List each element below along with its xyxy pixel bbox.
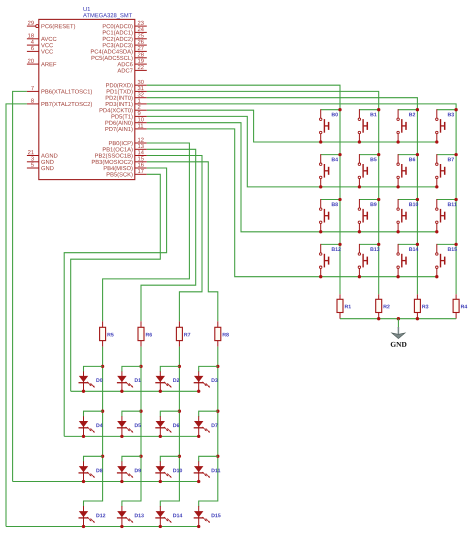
wire LED D1 anode branch [122,366,141,372]
pushbutton B0 [320,109,338,142]
junction [377,153,380,156]
pin 18 AVCC [27,33,57,41]
junction LED column 2 row 3 [139,455,142,458]
junction D1 cathode [120,390,123,393]
junction B5 bottom [358,185,361,188]
wire button B4 top to column [321,154,340,156]
junction [377,108,380,111]
wire button B6 top to column [398,154,417,156]
pin 16 PB4(MISO) [104,163,147,172]
junction [338,108,341,111]
junction D6 cathode [159,435,162,438]
junction B3 bottom [435,140,438,143]
pushbutton B6 [397,154,415,187]
junction LED column 3 row 2 [178,410,181,413]
pushbutton B12 [320,244,341,277]
junction D10 cathode [159,480,162,483]
wire LED D8 anode branch [84,456,103,462]
junction [416,243,419,246]
junction LED column 4 row 3 [216,455,219,458]
pushbutton B9 [358,199,376,232]
junction D5 cathode [120,435,123,438]
pin 17 PB5(SCK) [107,169,147,178]
LED D9 [117,461,141,481]
pin 8 PB7(XTAL2TOSC2) [27,99,92,108]
wire button B5 top to column [359,154,378,156]
pin 23 PC0(ADC0) [103,21,147,30]
junction [338,198,341,201]
junction [416,108,419,111]
wire PD7 to button row 4 [147,129,437,277]
pin 32 PD2(INT0) [106,92,147,101]
junction LED column 1 row 3 [101,455,104,458]
pushbutton B13 [358,244,379,277]
junction LED column 1 row 2 [101,410,104,413]
wire LED column 2 vertical [122,347,141,507]
pushbutton B7 [436,154,454,187]
LED D12 [79,506,106,527]
pin 9 PD5(T1) [112,111,147,120]
wire GND stub [397,319,399,328]
wire button B0 top to column [321,109,340,111]
pin 10 PD6(AIN0) [105,117,146,126]
wire PB4 to LED row 2 [64,168,166,436]
junction D11 cathode [197,480,200,483]
junction LED column 3 row 1 [178,365,181,368]
pin 25 PC2(ADC2) [103,33,147,42]
LED D1 [117,371,141,391]
junction D3 cathode [197,390,200,393]
pushbutton B2 [397,109,415,142]
junction LED column 3 row 3 [178,455,181,458]
junction [377,243,380,246]
wire PD0 to button column 1 [147,85,340,294]
pin 29 PC6(RESET) [27,21,75,30]
wire LED column 4 vertical [199,347,218,507]
pushbutton B4 [320,154,339,187]
junction [416,153,419,156]
junction B2 bottom [396,140,399,143]
pin 27 PC4(ADC4SDA) [91,46,147,55]
LED D15 [194,506,221,527]
wire button B11 top to column [437,199,456,201]
wire button B14 top to column [398,243,417,245]
junction [416,198,419,201]
pin 19 ADC6 [117,59,146,67]
pin 12 PB0(ICP) [109,138,147,147]
wire PD4 to button row 1 [147,110,437,142]
resistor R7 [176,321,190,346]
pushbutton B10 [397,199,418,232]
junction D9 cathode [120,480,123,483]
junction B4 bottom [319,185,322,188]
junction D0 cathode [82,390,85,393]
LED D11 [194,461,221,481]
junction LED column 4 row 2 [216,410,219,413]
junction B10 bottom [396,230,399,233]
IC U1 ATMEGA328_SMT [39,7,135,180]
LED D4 [79,416,103,436]
LED D8 [79,461,103,481]
pushbutton B3 [436,109,454,142]
wire LED D0 anode branch [84,366,103,372]
wire button B2 top to column [398,109,417,111]
junction [377,198,380,201]
pin 24 PC1(ADC1) [103,27,147,36]
junction [377,317,380,320]
pushbutton B8 [320,199,338,232]
junction B7 bottom [435,185,438,188]
junction LED column 2 row 1 [139,365,142,368]
wire PD5 to button row 2 [147,116,437,186]
wire button B7 top to column [437,154,456,156]
resistor R1 [337,294,351,318]
wire LED D9 anode branch [122,456,141,462]
pin 26 PC3(ADC3) [103,40,147,49]
pin 3 GND [27,156,54,164]
wire PD3 to button column 4 [147,104,456,294]
junction B8 bottom [319,230,322,233]
pushbutton B15 [436,244,457,277]
LED D13 [117,506,144,527]
wire PB1 to R6 [141,149,196,321]
pin 1 PD3(INT1) [106,99,147,108]
wire resistor commons to GND [340,318,456,320]
pin 4 VCC [27,40,53,47]
junction D12 cathode [82,525,85,528]
pin 21 AGND [27,150,58,158]
junction B1 bottom [358,140,361,143]
junction B15 bottom [435,275,438,278]
wire LED row 2 [64,435,199,437]
junction [454,198,457,201]
junction D15 cathode [197,525,200,528]
pushbutton B11 [436,199,457,232]
wire LED D3 anode branch [199,366,218,372]
wire PB7 to LED row 4 [6,104,27,527]
pushbutton B14 [397,244,418,277]
pin 6 VCC [27,46,53,54]
resistor R3 [414,294,428,318]
wire PD6 to button row 3 [147,123,437,232]
wire PB6 to LED row 3 [13,91,27,481]
pin 22 ADC7 [117,65,146,73]
junction D8 cathode [82,480,85,483]
wire LED D7 anode branch [199,411,218,417]
junction LED column 2 row 2 [139,410,142,413]
wire button B8 top to column [321,199,340,201]
junction [397,317,400,320]
LED D2 [155,371,179,391]
wire LED row 1 [71,390,199,392]
LED D7 [194,416,218,436]
wire PB2 to R7 [147,156,202,322]
junction D13 cathode [120,525,123,528]
pin 14 PB2(SSOC1B) [95,150,147,159]
pin 7 PB6(XTAL1TOSC1) [27,86,92,95]
junction [416,317,419,320]
wire LED D6 anode branch [160,411,179,417]
junction D2 cathode [159,390,162,393]
LED D10 [155,461,182,481]
junction [338,153,341,156]
junction B0 bottom [319,140,322,143]
pin 2 PD4(XCKT0) [100,105,147,114]
junction D14 cathode [159,525,162,528]
pin 30 PD0(RXD) [106,80,147,89]
resistor R8 [215,321,229,346]
junction B12 bottom [319,275,322,278]
resistor R6 [138,321,152,346]
resistor R5 [100,321,114,346]
wire LED D5 anode branch [122,411,141,417]
pin 20 AREF [27,59,56,66]
junction [454,243,457,246]
junction [338,243,341,246]
LED D0 [79,371,103,391]
pin 5 GND [27,163,54,170]
wire button B10 top to column [398,199,417,201]
wire LED D4 anode branch [84,411,103,417]
pushbutton B5 [358,154,376,187]
junction B9 bottom [358,230,361,233]
wire LED column 1 vertical [84,347,103,507]
wire PD1 to button column 2 [147,91,379,294]
junction LED column 1 row 1 [101,365,104,368]
junction D7 cathode [197,435,200,438]
pin 11 PD7(AIN1) [105,124,146,133]
pin 28 PC5(ADC5SCL) [92,52,147,61]
pin 31 PD1(TXD) [107,86,147,95]
wire PB5 to LED row 1 [71,174,161,391]
pushbutton B1 [358,109,376,142]
wire button B13 top to column [359,243,378,245]
junction D4 cathode [82,435,85,438]
wire button B9 top to column [359,199,378,201]
junction LED column 4 row 1 [216,365,219,368]
junction [454,153,457,156]
wire PB3 to R8 [147,162,218,321]
pin 13 PB1(OC1A) [103,144,147,153]
LED D6 [155,416,179,436]
junction [454,108,457,111]
wire LED D2 anode branch [160,366,179,372]
ground GND [391,327,407,347]
resistor R4 [453,294,467,318]
LED D5 [117,416,141,436]
wire PD2 to button column 3 [147,98,418,295]
resistor R2 [376,294,390,318]
wire button B15 top to column [437,243,456,245]
LED D14 [155,506,182,527]
junction B6 bottom [396,185,399,188]
junction B13 bottom [358,275,361,278]
junction B11 bottom [435,230,438,233]
wire PB0 to R5 [103,143,190,321]
junction B14 bottom [396,275,399,278]
pin 15 PB3(MOSIOC2) [92,157,147,166]
wire LED D11 anode branch [199,456,218,462]
wire LED D10 anode branch [160,456,179,462]
wire button B12 top to column [321,243,340,245]
wire LED row 4 [6,526,199,528]
wire LED row 3 [13,481,199,483]
wire LED column 3 vertical [160,347,179,507]
wire button B3 top to column [437,109,456,111]
wire button B1 top to column [359,109,378,111]
LED D3 [194,371,218,391]
